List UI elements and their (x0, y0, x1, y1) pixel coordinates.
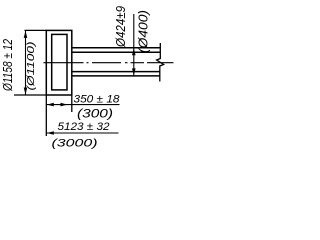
pipe bottom inner wall (72, 71, 160, 73)
dimension 350: arrow left (47, 103, 54, 107)
svg-text:Ø424±9: Ø424±9 (114, 6, 128, 48)
dimension 5123: arrow left (47, 131, 54, 135)
dimension D1158: extension line bottom (14, 94, 46, 96)
dimension D424: arrow down (132, 68, 136, 75)
dimension D424: arrow up (132, 48, 136, 55)
svg-text:(300): (300) (77, 108, 113, 120)
dimension D1158: arrow up (24, 31, 28, 38)
flange inner rectangle (52, 34, 67, 90)
dimension 350: dimension line (46, 104, 119, 106)
svg-text:Ø1158 ± 12: Ø1158 ± 12 (1, 39, 15, 92)
dimension D424: dimension line (133, 14, 135, 76)
dimension 350: right extension line (flange right face extended) (71, 95, 73, 112)
pipe centerline (44, 62, 174, 64)
dimension D1158: arrow down (24, 88, 28, 95)
pipe top inner wall (72, 51, 160, 53)
dimension D1158: extension line top (25, 29, 47, 31)
dimension 350: left extension line (flange left face extended) (45, 95, 47, 136)
dimension 5123: dimension line (46, 132, 118, 134)
svg-text:(Ø1100): (Ø1100) (26, 42, 37, 91)
svg-text:350 ± 18: 350 ± 18 (74, 94, 121, 106)
pipe bottom outer wall (72, 75, 160, 77)
svg-text:(Ø400): (Ø400) (136, 10, 151, 53)
pipe break (Z-cut) (157, 43, 164, 82)
pipe top outer wall (72, 47, 160, 49)
dimension D1158: dimension line (25, 30, 27, 95)
svg-text:5123 ± 32: 5123 ± 32 (58, 121, 110, 133)
flange outer rectangle (46, 30, 72, 95)
dimension 350: arrow right (61, 103, 68, 107)
svg-text:(3000): (3000) (52, 137, 98, 149)
